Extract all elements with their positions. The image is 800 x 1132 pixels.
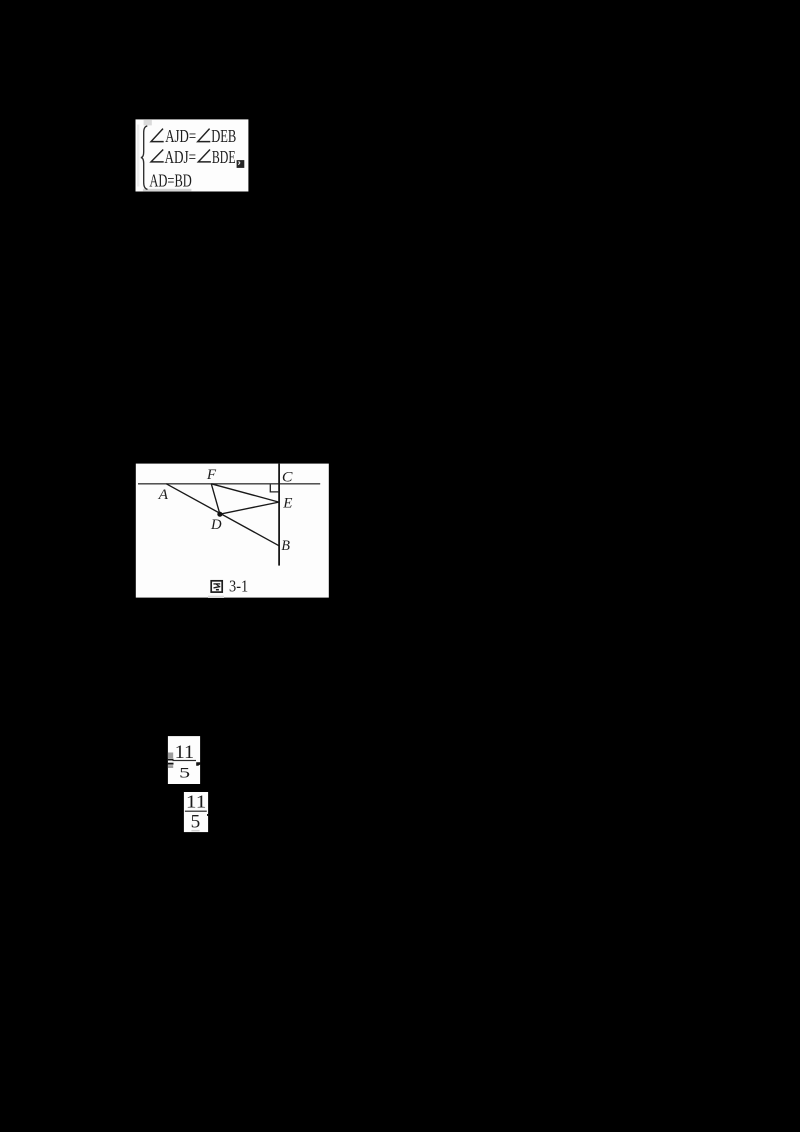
angle symbol line1 left <box>151 129 164 142</box>
gray strip bottom of equation box <box>143 189 192 191</box>
svg-text:AD=BD: AD=BD <box>149 171 191 191</box>
svg-text:11: 11 <box>186 792 206 812</box>
fraction bar <box>173 760 197 761</box>
equals sign fragment <box>168 759 174 761</box>
svg-text:A: A <box>158 487 169 503</box>
gray strip left edge of equation box <box>137 125 139 187</box>
angle symbol line2 left <box>151 150 164 162</box>
left curly brace <box>141 126 148 189</box>
black dot right of bar <box>207 814 208 816</box>
svg-text:E: E <box>282 496 292 512</box>
gray block lower left <box>168 765 173 768</box>
black comma blob right <box>196 762 200 766</box>
gray strip bottom <box>191 830 199 832</box>
line F to D <box>211 484 220 514</box>
geometry figure white box <box>136 464 329 598</box>
svg-text:D: D <box>210 517 222 533</box>
caption glyph 图 <box>211 581 222 592</box>
line A to B <box>166 484 279 546</box>
gray block upper left <box>168 753 173 759</box>
svg-text:AJD=: AJD= <box>165 126 196 146</box>
line F to E <box>211 484 279 502</box>
angle symbol line2 right <box>198 150 211 162</box>
equation system white box <box>136 119 249 191</box>
svg-text:F: F <box>206 467 217 483</box>
fraction bar <box>185 811 207 812</box>
fraction box =11/5, <box>168 736 201 784</box>
svg-text:BDE: BDE <box>212 147 236 167</box>
svg-text:3-1: 3-1 <box>229 576 248 595</box>
fraction box 11/5 second <box>184 792 208 833</box>
point D dot <box>217 512 222 517</box>
gray nub top of equation box <box>144 119 152 125</box>
svg-text:C: C <box>282 470 294 486</box>
svg-text:DEB: DEB <box>211 126 236 146</box>
vertical line C E B <box>278 464 280 566</box>
horizontal line through A F C <box>138 483 320 485</box>
right angle mark <box>270 485 279 492</box>
svg-text:ADJ=: ADJ= <box>165 147 197 167</box>
svg-text:5: 5 <box>179 765 190 781</box>
line D to E <box>220 502 279 514</box>
inverse comma square after line2 <box>237 160 245 168</box>
svg-text:B: B <box>281 538 290 554</box>
angle symbol line1 right <box>198 129 211 142</box>
gray strip bottom of figure box <box>208 596 224 598</box>
svg-text:5: 5 <box>191 813 201 833</box>
